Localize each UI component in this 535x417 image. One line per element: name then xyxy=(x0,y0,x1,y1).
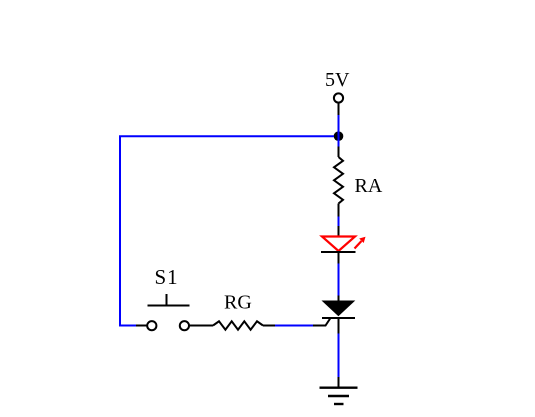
wire left vertical xyxy=(120,136,136,325)
resistor RA xyxy=(334,147,343,217)
terminal 5V xyxy=(334,93,343,102)
ground xyxy=(320,377,358,404)
svg-text:S1: S1 xyxy=(155,265,179,289)
LED xyxy=(321,226,366,264)
wire 5V vertical xyxy=(338,115,340,147)
junction dot xyxy=(334,131,344,141)
wire SCR to ground xyxy=(338,334,340,378)
wire top horizontal xyxy=(119,135,334,137)
wire LED to SCR xyxy=(338,264,340,296)
resistor RG xyxy=(189,321,275,329)
pin from 5V terminal xyxy=(338,103,340,115)
wire RG to gate xyxy=(275,325,313,327)
svg-text:RG: RG xyxy=(224,292,252,314)
thyristor SCR xyxy=(313,296,355,334)
wire RA to LED xyxy=(338,217,340,227)
svg-text:RA: RA xyxy=(355,175,383,197)
svg-text:5V: 5V xyxy=(325,69,350,91)
switch S1 xyxy=(136,294,190,330)
